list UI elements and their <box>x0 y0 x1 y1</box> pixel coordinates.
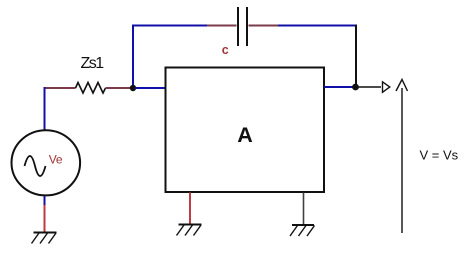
amplifier block A <box>166 68 325 193</box>
svg-text:V = Vs: V = Vs <box>420 148 459 163</box>
svg-text:Zs1: Zs1 <box>81 55 105 72</box>
label A <box>237 123 253 147</box>
wire below source (blue segment) <box>44 196 46 205</box>
output port triangle <box>383 82 390 93</box>
wire resistor to node (maroon) <box>106 87 132 89</box>
wire source top horizontal (maroon) <box>44 87 76 89</box>
wire capacitor left lead (maroon) <box>207 25 237 27</box>
wire below source (red segment) <box>44 205 46 232</box>
wire node to amplifier input (blue) <box>135 87 165 89</box>
label c <box>222 43 229 57</box>
wire amplifier output to node (blue) <box>324 86 353 88</box>
wire node down to source (blue) <box>44 87 46 131</box>
node output junction <box>352 84 359 91</box>
node input junction <box>130 85 136 91</box>
arrow head Vs <box>396 80 408 92</box>
arrow line Vs <box>401 88 403 233</box>
ground under source <box>32 233 57 244</box>
ground under amplifier right <box>290 225 315 236</box>
label V = Vs <box>420 148 459 163</box>
wire amplifier ground left (red) <box>189 193 191 225</box>
voltage source Ve circle <box>12 130 81 195</box>
voltage source sine wave <box>25 156 46 176</box>
capacitor C plates <box>238 7 247 46</box>
label Zs1 <box>81 55 105 72</box>
svg-text:Ve: Ve <box>49 153 63 167</box>
label Ve <box>49 153 63 167</box>
wire top feedback right (blue) <box>278 25 357 27</box>
svg-text:c: c <box>222 43 229 57</box>
wire capacitor right lead (maroon) <box>249 25 279 27</box>
resistor Zs1 <box>76 83 106 94</box>
wire right vertical from top to output node (black) <box>355 25 357 88</box>
svg-text:A: A <box>237 123 253 147</box>
ground under amplifier left <box>177 225 202 236</box>
wire left vertical from top to input node (blue) <box>132 25 134 89</box>
wire top feedback left (blue) <box>132 25 207 27</box>
wire amplifier ground right (gray) <box>303 193 305 226</box>
wire node to output port (black) <box>358 86 381 88</box>
